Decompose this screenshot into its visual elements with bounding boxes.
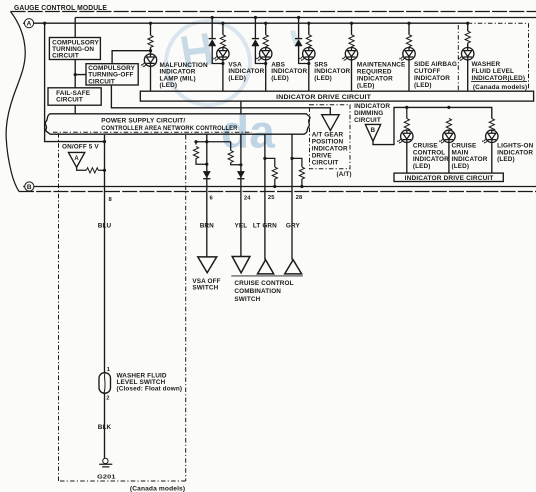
wire: node A branch down to washer sense line — [45, 23, 105, 141]
svg-text:(LED): (LED) — [314, 75, 332, 82]
cruise main indicator column — [446, 119, 451, 131]
svg-text:A: A — [74, 156, 79, 162]
svg-text:FLUID LEVEL: FLUID LEVEL — [472, 68, 515, 75]
resistor col2 — [228, 142, 242, 167]
svg-text:WASHER: WASHER — [472, 61, 501, 68]
indicator drive circuit bar 2 — [394, 173, 503, 182]
svg-text:REQUIRED: REQUIRED — [357, 69, 392, 76]
LED VSA indicator — [213, 47, 229, 61]
wire switch to ground — [104, 393, 106, 458]
svg-text:CRUISE CONTROL: CRUISE CONTROL — [234, 280, 293, 287]
svg-text:(LED): (LED) — [452, 163, 470, 170]
junction dots on rail T — [211, 16, 214, 19]
svg-text:COMBINATION: COMBINATION — [234, 288, 281, 295]
wire SRS to bar — [308, 60, 310, 91]
svg-text:da: da — [221, 106, 275, 158]
arrow to VSA OFF switch — [198, 257, 217, 273]
LED cruise main indicator — [439, 130, 455, 144]
arrow YEL filled — [232, 257, 250, 273]
wire: rail T corner down to turning-on box — [74, 18, 76, 38]
indicator dimming circuit label — [354, 103, 390, 124]
A/T gear position indicator drive circuit dashed box — [310, 105, 351, 169]
ABS column: resistor — [263, 23, 268, 47]
svg-text:SWITCH: SWITCH — [192, 285, 218, 292]
wire: turning-on to fail-safe chain — [75, 60, 86, 88]
lights-on indicator column — [489, 119, 494, 131]
label WASHER — [471, 61, 527, 91]
ground G201 — [97, 458, 116, 480]
resistor R ON/OFF — [86, 168, 98, 173]
svg-text:BLU: BLU — [98, 223, 112, 230]
wire: turning-off top link to MIL — [112, 51, 150, 64]
canada models dashed box top right — [458, 23, 528, 90]
svg-text:CONTROLLER AREA NETWORK CONTRO: CONTROLLER AREA NETWORK CONTROLLER — [101, 125, 237, 132]
svg-text:INDICATOR DRIVE CIRCUIT: INDICATOR DRIVE CIRCUIT — [276, 94, 371, 101]
wire rail T y=17.5 — [75, 17, 536, 19]
label MIL — [160, 62, 208, 89]
LED maintenance required indicator — [342, 47, 358, 61]
junction ABS branches — [264, 62, 267, 65]
cruise control indicator column — [404, 107, 409, 130]
svg-text:GAUGE CONTROL MODULE: GAUGE CONTROL MODULE — [14, 3, 107, 12]
LED SRS indicator — [299, 47, 315, 61]
svg-text:BLK: BLK — [98, 424, 112, 431]
MAINTENANCE column: resistor — [349, 23, 354, 47]
arrow GRY up — [285, 260, 302, 274]
wire MAINT to bar — [351, 60, 353, 91]
LED ABS indicator — [256, 47, 272, 61]
resistor R-MIL — [148, 23, 153, 54]
label SRS — [314, 62, 350, 82]
resistor col3 to B bus — [265, 158, 278, 188]
svg-text:CIRCUIT: CIRCUIT — [354, 117, 381, 124]
wire VSA to bar — [222, 60, 224, 91]
wire SIDE AIRBAG to bar — [408, 60, 410, 91]
module border top — [11, 11, 536, 13]
compulsory turning-off circuit box — [86, 64, 138, 86]
svg-text:INDICATOR: INDICATOR — [414, 75, 450, 82]
label MAINTENANCE — [357, 62, 406, 90]
label washer fluid level switch — [117, 372, 183, 392]
svg-text:(Canada models): (Canada models) — [130, 486, 185, 492]
op-amp A ON/OFF driver triangle — [68, 152, 84, 167]
svg-text:SWITCH: SWITCH — [234, 296, 260, 303]
svg-text:(LED): (LED) — [228, 75, 246, 82]
svg-text:25: 25 — [268, 195, 275, 201]
wire washer sense line pin 8 — [104, 135, 106, 373]
svg-text:MAINTENANCE: MAINTENANCE — [357, 62, 406, 69]
svg-text:2: 2 — [106, 395, 109, 401]
junction washer sense line / A branch — [103, 140, 106, 143]
wire B bus y=186.5 — [34, 186, 536, 188]
svg-text:(A/T): (A/T) — [337, 171, 352, 178]
junction LT GRN branch — [263, 157, 266, 160]
svg-text:28: 28 — [296, 195, 303, 201]
ABS column: diode — [252, 18, 266, 64]
diode D2 on YEL line — [237, 171, 244, 178]
wire WASHER to bar — [467, 60, 469, 91]
watermark honda logo overlay — [166, 21, 300, 158]
VSA column: diode — [209, 18, 223, 64]
resistor col4 to B bus — [292, 158, 305, 188]
LED washer fluid level indicator — [458, 47, 474, 61]
svg-text:(LED): (LED) — [497, 156, 515, 163]
wire dimming loop to cruise bus — [373, 107, 492, 144]
svg-text:SIDE AIRBAG: SIDE AIRBAG — [414, 61, 457, 68]
svg-text:24: 24 — [244, 196, 251, 202]
SRS column: diode — [295, 18, 309, 64]
svg-text:(Canada models): (Canada models) — [473, 84, 527, 91]
wire from driver A through resistor to washer sense line — [77, 167, 87, 170]
arrow LT GRN up — [258, 260, 274, 274]
WASHER column: resistor — [465, 23, 470, 47]
wire rail to resistors cols 1-2 — [196, 141, 231, 143]
svg-text:INDICATOR: INDICATOR — [354, 103, 390, 110]
washer fluid level switch — [99, 373, 111, 394]
VSA column: resistor — [220, 23, 225, 47]
LED cruise control indicator — [397, 130, 413, 144]
svg-text:B: B — [27, 184, 32, 191]
compulsory turning-on circuit box — [49, 38, 100, 60]
LED side airbag cutoff indicator — [399, 47, 415, 61]
wire bar1 to power supply bar — [240, 102, 242, 114]
op-amp B dimming driver triangle — [365, 124, 380, 141]
junction dots on rail A — [43, 22, 46, 25]
svg-text:A: A — [27, 21, 32, 28]
node A — [23, 19, 34, 28]
svg-text:(LED): (LED) — [413, 163, 431, 170]
label cruise control combination switch — [234, 280, 293, 303]
label SIDE AIRBAG — [414, 61, 457, 89]
wire VSA-OFF line pin 6 — [206, 134, 208, 257]
junction ON/OFF driver to washer sense line — [103, 169, 106, 172]
SIDE AIRBAG column: resistor — [406, 23, 411, 47]
svg-text:INDICATOR: INDICATOR — [357, 76, 393, 83]
junction MIL link — [149, 49, 152, 52]
LED lights-on indicator — [482, 130, 498, 144]
wire: turning-off bottom bus to A/T drive — [111, 85, 330, 115]
svg-text:(LED): (LED) — [271, 75, 289, 82]
svg-text:CUTOFF: CUTOFF — [414, 68, 441, 75]
module border left torn edge — [6, 12, 25, 192]
wire YEL line pin 24 — [240, 134, 242, 256]
svg-text:DRIVE: DRIVE — [312, 153, 333, 160]
svg-text:YEL: YEL — [235, 222, 248, 229]
svg-text:(LED): (LED) — [357, 83, 375, 90]
label ABS — [271, 62, 307, 82]
svg-text:(LED): (LED) — [414, 82, 432, 89]
wire ABS to bar — [265, 60, 267, 91]
fail-safe circuit box — [48, 88, 101, 105]
node B — [23, 182, 34, 191]
label VSA — [228, 62, 264, 82]
label VSA OFF SWITCH — [192, 278, 220, 292]
SRS column: resistor — [306, 23, 311, 47]
canada models dash-dot box lower — [53, 132, 252, 481]
junction dots cruise bus — [405, 106, 408, 109]
wire rail A y=23.2 — [34, 22, 468, 24]
svg-text:INDICATOR DRIVE CIRCUIT: INDICATOR DRIVE CIRCUIT — [405, 175, 494, 182]
svg-text:DIMMING: DIMMING — [354, 110, 383, 117]
power supply circuit / CAN controller bar — [45, 114, 310, 134]
svg-text:A/T GEAR: A/T GEAR — [312, 132, 344, 139]
junction GRY branch — [290, 157, 293, 160]
svg-text:LT GRN: LT GRN — [253, 222, 277, 229]
svg-text:INDICATOR: INDICATOR — [312, 146, 348, 153]
svg-text:G201: G201 — [97, 474, 116, 480]
svg-text:POWER SUPPLY CIRCUIT/: POWER SUPPLY CIRCUIT/ — [101, 118, 185, 125]
svg-text:ON/OFF 5 V: ON/OFF 5 V — [62, 144, 99, 151]
wire GRY line pin 28 — [291, 134, 293, 260]
wire MIL to indicator drive bar — [150, 66, 152, 90]
LED malfunction indicator lamp MIL — [141, 54, 157, 68]
module border bottom — [19, 191, 536, 193]
junction dots mid rail — [194, 140, 197, 143]
junction SRS branches — [307, 62, 310, 65]
indicator drive circuit bar 1 — [140, 91, 533, 101]
svg-text:B: B — [370, 127, 375, 134]
svg-text:(Closed: Float down): (Closed: Float down) — [117, 386, 183, 393]
svg-text:CIRCUIT: CIRCUIT — [88, 78, 115, 85]
wire LT GRN line pin 25 — [264, 134, 266, 260]
diode D1 on VSA-OFF line — [203, 171, 210, 178]
svg-text:GRY: GRY — [286, 222, 301, 229]
svg-text:BRN: BRN — [200, 222, 214, 229]
svg-text:CIRCUIT: CIRCUIT — [56, 96, 83, 103]
wire: fail-safe to power supply bar — [74, 105, 76, 114]
resistor col1 — [193, 142, 208, 166]
svg-text:POSITION: POSITION — [312, 139, 344, 146]
svg-text:CIRCUIT: CIRCUIT — [52, 53, 79, 60]
junction VSA branches — [221, 62, 224, 65]
svg-text:CIRCUIT: CIRCUIT — [312, 160, 339, 167]
bracket cruise control combination switch — [231, 275, 302, 277]
